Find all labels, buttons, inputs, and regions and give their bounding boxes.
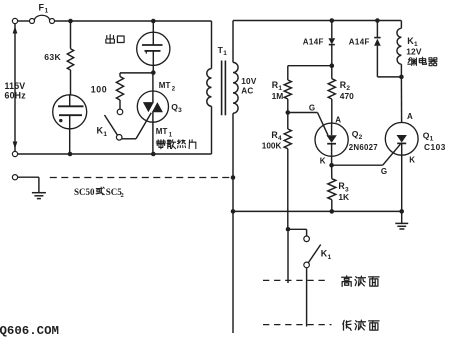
svg-text:MT: MT	[156, 127, 168, 136]
svg-text:G: G	[381, 167, 387, 176]
svg-text:C103: C103	[424, 142, 446, 152]
svg-text:K: K	[409, 156, 415, 165]
svg-text:12V: 12V	[406, 47, 422, 57]
svg-text:2: 2	[121, 192, 124, 199]
svg-text:A: A	[407, 112, 413, 121]
svg-text:3: 3	[178, 107, 182, 114]
svg-text:1: 1	[328, 254, 332, 261]
svg-text:MT: MT	[159, 81, 171, 90]
svg-text:100: 100	[91, 85, 107, 95]
svg-text:470: 470	[340, 91, 354, 101]
svg-text:A: A	[335, 115, 341, 124]
svg-text:2: 2	[359, 134, 363, 141]
svg-text:1: 1	[103, 131, 107, 138]
svg-text:A14F: A14F	[349, 38, 370, 47]
svg-text:1: 1	[45, 8, 49, 15]
svg-text:Q606.COM: Q606.COM	[0, 324, 59, 337]
svg-text:A14F: A14F	[303, 38, 324, 47]
svg-text:G: G	[309, 104, 315, 113]
svg-text:F: F	[39, 3, 45, 13]
svg-text:60Hz: 60Hz	[5, 90, 27, 100]
svg-text:1M: 1M	[272, 91, 284, 101]
svg-text:10V: 10V	[241, 77, 257, 86]
svg-text:100K: 100K	[262, 142, 282, 151]
svg-text:63K: 63K	[44, 52, 61, 62]
svg-text:1K: 1K	[338, 192, 349, 202]
svg-text:K: K	[320, 157, 326, 166]
svg-text:AC: AC	[241, 86, 253, 95]
svg-text:2N6027: 2N6027	[349, 143, 379, 152]
svg-text:SC50: SC50	[74, 187, 95, 197]
svg-text:1: 1	[223, 50, 227, 57]
